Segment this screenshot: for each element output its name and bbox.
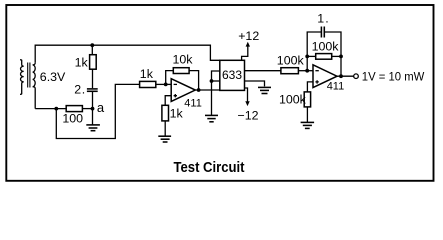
svg-text:1k: 1k [75, 55, 89, 69]
svg-text:10k: 10k [173, 53, 194, 67]
svg-text:2: 2 [74, 83, 81, 97]
svg-text:411: 411 [327, 81, 345, 93]
svg-text:100k: 100k [277, 54, 305, 68]
svg-text:1k: 1k [170, 107, 184, 121]
svg-text:100k: 100k [312, 39, 340, 53]
svg-text:Test Circuit: Test Circuit [174, 160, 245, 176]
svg-text:a: a [97, 100, 105, 115]
svg-text:633: 633 [222, 68, 242, 82]
svg-text:1V = 10 mW: 1V = 10 mW [362, 70, 425, 84]
svg-text:1: 1 [317, 12, 324, 26]
svg-text:−12: −12 [238, 108, 259, 122]
svg-text:1k: 1k [140, 67, 154, 81]
svg-text:411: 411 [184, 97, 202, 109]
svg-text:.: . [325, 12, 328, 26]
svg-text:6.3V: 6.3V [40, 70, 66, 84]
svg-text:.: . [82, 83, 85, 97]
svg-text:+12: +12 [238, 29, 259, 43]
svg-text:100: 100 [62, 111, 83, 125]
svg-text:100k: 100k [279, 93, 307, 107]
